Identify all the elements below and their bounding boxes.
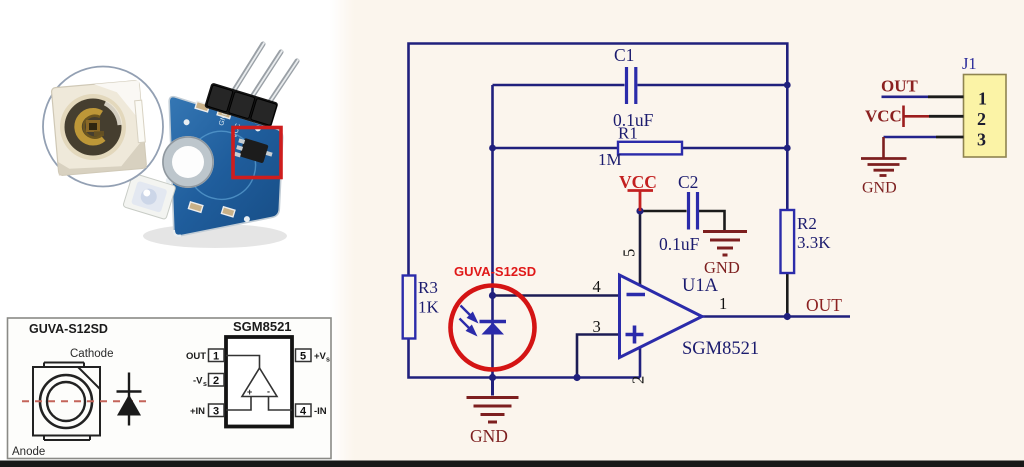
wire R1 row left xyxy=(493,147,619,150)
op-amp plus input mark xyxy=(626,326,644,344)
op-amp minus input mark xyxy=(627,293,646,297)
SMD resistor b xyxy=(217,108,231,118)
svg-text:J1: J1 xyxy=(962,54,977,73)
diode symbol triangle xyxy=(117,395,141,416)
SGM pin box 5 xyxy=(296,349,312,362)
wire top loop xyxy=(409,44,788,277)
mounting hole xyxy=(162,136,214,188)
module photo shadow xyxy=(143,224,287,248)
svg-text:5: 5 xyxy=(620,249,639,257)
svg-text:U1A: U1A xyxy=(682,276,719,296)
SMD resistor d xyxy=(221,207,235,217)
wire C2 left xyxy=(640,210,687,213)
sensor chip xyxy=(86,120,100,132)
capacitor C1 xyxy=(627,67,636,104)
svg-text:2: 2 xyxy=(629,376,648,384)
svg-text:3.3K: 3.3K xyxy=(797,233,831,252)
red centerline dashed xyxy=(22,400,152,402)
wire pin2 vertical xyxy=(639,347,642,378)
svg-text:R2: R2 xyxy=(797,214,817,233)
svg-text:3: 3 xyxy=(593,317,601,336)
ground photodiode xyxy=(467,378,519,423)
junction node photodiode-bottom xyxy=(489,374,496,381)
resistor R1 xyxy=(618,142,682,155)
SGM opamp triangle xyxy=(242,368,277,397)
photodiode light arrow 1 xyxy=(461,306,477,322)
wire C1 row right xyxy=(638,84,788,87)
SGM pin box 2 xyxy=(209,374,225,387)
silkscreen arcs xyxy=(179,123,264,208)
SOT-23 IC xyxy=(234,137,274,167)
svg-text:VCC: VCC xyxy=(865,107,902,126)
diode symbol vertical xyxy=(128,373,130,426)
svg-text:1M: 1M xyxy=(598,150,622,169)
wire pin5 vertical xyxy=(639,211,642,285)
sensor lens inner ring xyxy=(47,382,85,421)
SGM wire pin1 xyxy=(226,356,260,369)
svg-text:4: 4 xyxy=(593,277,601,296)
svg-text:SGM8521: SGM8521 xyxy=(233,319,292,334)
svg-text:VCC: VCC xyxy=(619,172,657,192)
junction node pin3-bottom xyxy=(573,374,580,381)
SGM wire pin4 xyxy=(269,397,293,411)
svg-text:+: + xyxy=(247,387,252,397)
wire opamp output to OUT xyxy=(701,315,850,318)
svg-text:3: 3 xyxy=(977,130,986,150)
connector J1 xyxy=(964,75,1007,158)
junction node OUT xyxy=(784,313,791,320)
svg-text:2: 2 xyxy=(213,375,219,387)
junction node C1-right xyxy=(784,82,791,89)
svg-text:C1: C1 xyxy=(614,45,634,65)
op-amp U1A xyxy=(620,275,703,358)
wire C1 row left xyxy=(493,84,625,87)
svg-text:Anode: Anode xyxy=(12,446,45,458)
detail box frame xyxy=(8,318,332,459)
svg-text:R3: R3 xyxy=(418,278,438,297)
sensor package outline xyxy=(33,363,100,441)
header pin 1 xyxy=(228,43,264,100)
wire J1 gnd stem xyxy=(882,137,885,159)
svg-text:OUT: OUT xyxy=(881,77,919,96)
ground J1 xyxy=(861,159,907,176)
header pin 3 xyxy=(263,60,298,112)
photodiode cathode bar xyxy=(480,320,507,323)
SMD resistor c xyxy=(188,202,202,212)
svg-text:s: s xyxy=(203,381,207,388)
SGM pin box 1 xyxy=(209,349,225,362)
silkscreen pads xyxy=(183,118,190,125)
header pin 2 xyxy=(246,51,282,106)
svg-text:1: 1 xyxy=(213,351,219,363)
svg-text:1: 1 xyxy=(978,89,987,109)
SGM wire pin3 xyxy=(226,397,251,411)
capacitor C2 xyxy=(689,192,698,230)
svg-text:4: 4 xyxy=(300,406,307,418)
junction node R1-right xyxy=(784,145,791,152)
svg-text:Cathode: Cathode xyxy=(70,348,113,360)
diode symbol cathode bar xyxy=(117,390,142,393)
photodiode triangle xyxy=(482,323,505,335)
photodiode D1 circle xyxy=(451,286,535,370)
svg-text:1K: 1K xyxy=(418,298,440,317)
svg-text:-IN: -IN xyxy=(314,406,327,417)
sensor cavity ring xyxy=(60,94,126,160)
svg-text:GUVA-S12SD: GUVA-S12SD xyxy=(29,322,108,336)
svg-text:GND: GND xyxy=(470,426,508,446)
svg-text:3: 3 xyxy=(213,406,219,418)
power VCC mid xyxy=(628,191,654,212)
svg-text:-V: -V xyxy=(193,376,203,387)
wire J1 pin2 xyxy=(929,115,964,118)
ground C2 xyxy=(703,232,747,256)
SGM package body xyxy=(226,337,292,427)
svg-text:C2: C2 xyxy=(678,172,698,192)
red highlight box xyxy=(233,128,281,178)
junction node VCC-C2 xyxy=(636,207,643,214)
svg-text:OUT: OUT xyxy=(186,351,206,362)
power VCC J1 xyxy=(904,106,930,128)
magnifier circle xyxy=(43,67,163,187)
svg-text:0.1uF: 0.1uF xyxy=(659,234,700,254)
junction node R1-left xyxy=(489,145,496,152)
svg-text:-: - xyxy=(267,387,270,397)
SGM pin box 3 xyxy=(209,404,225,417)
junction node photodiode-top xyxy=(489,292,496,299)
svg-text:+IN: +IN xyxy=(190,406,205,417)
svg-text:SGM8521: SGM8521 xyxy=(682,339,759,359)
wire J1 pin3 xyxy=(884,136,937,139)
wire pin4 row xyxy=(493,294,620,297)
svg-text:s: s xyxy=(326,357,330,364)
UV LED package xyxy=(123,173,176,220)
wire J1 pin1 xyxy=(882,96,929,99)
svg-text:2: 2 xyxy=(977,109,986,129)
SGM pin box 4 xyxy=(296,404,312,417)
sensor gold clip xyxy=(78,112,103,142)
SMD resistor a xyxy=(195,101,209,111)
wire R2 to out junction xyxy=(786,273,789,317)
sensor lens outer ring xyxy=(40,375,92,428)
PCB board xyxy=(169,97,283,236)
svg-text:GND: GND xyxy=(704,258,740,277)
resistor R3 xyxy=(403,276,416,339)
wire R1 row right xyxy=(682,147,787,150)
photodiode light arrow 2 xyxy=(460,319,476,335)
svg-text:1: 1 xyxy=(719,294,727,313)
svg-text:+V: +V xyxy=(314,351,327,362)
svg-text:OUT: OUT xyxy=(806,295,842,315)
bottom black bar xyxy=(0,461,1024,467)
wire bottom row xyxy=(409,338,641,378)
svg-text:R1: R1 xyxy=(618,124,638,143)
svg-text:5: 5 xyxy=(300,351,306,363)
svg-text:GUVA-S12SD: GUVA-S12SD xyxy=(454,264,536,279)
svg-text:GND: GND xyxy=(862,180,897,197)
sensor package in magnifier xyxy=(51,80,147,175)
wire mid vertical xyxy=(491,85,494,378)
header block xyxy=(204,82,279,127)
wire C2 right xyxy=(699,211,725,231)
resistor R2 xyxy=(781,210,795,273)
wire pin3 xyxy=(577,335,620,378)
